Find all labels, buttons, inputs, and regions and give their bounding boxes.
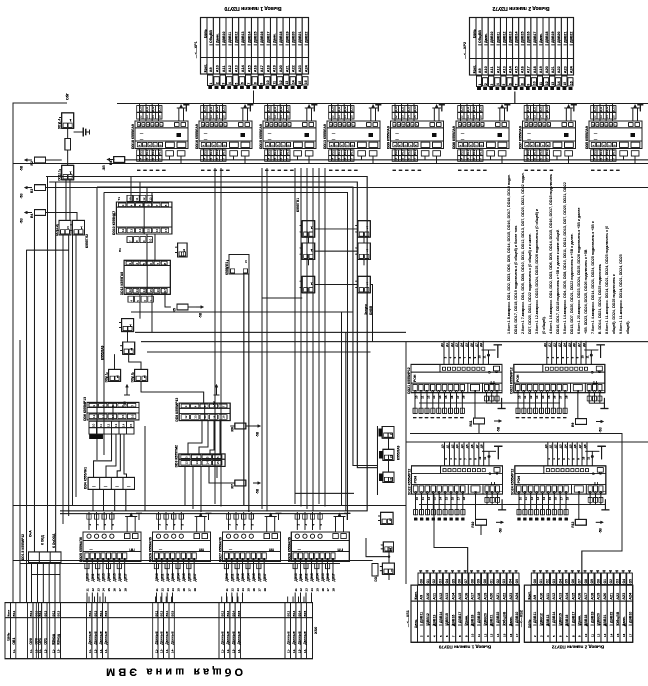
wire trunk vertical 13 (341, 312, 343, 505)
svg-text:-5В: -5В (598, 527, 602, 533)
svg-text:17: 17 (118, 588, 122, 592)
svg-text:16: 16 (554, 497, 558, 501)
wire left mid vert 1 (96, 187, 98, 460)
svg-text:А11: А11 (546, 593, 550, 600)
svg-text:14: 14 (557, 81, 561, 85)
svg-text:14: 14 (291, 80, 295, 84)
svg-text:14: 14 (605, 115, 609, 119)
svg-text:12: 12 (267, 115, 271, 119)
svg-text:11: 11 (477, 634, 481, 638)
svg-text:13-: 13- (231, 649, 235, 653)
svg-text:ДВ14: ДВ14 (107, 573, 111, 581)
svg-text:В10: В10 (267, 150, 271, 156)
wire bigIC row link (410, 434, 622, 573)
svg-text:10: 10 (581, 355, 585, 359)
svg-text:14: 14 (279, 115, 283, 119)
resistor R6 (235, 423, 246, 429)
svg-text:О6: О6 (458, 579, 462, 583)
svg-text:14: 14 (203, 157, 207, 161)
wire nest 4 (60, 192, 348, 513)
svg-text:R9: R9 (571, 423, 575, 427)
svg-text:DD1.1: DD1.1 (104, 373, 108, 382)
svg-text:О1: О1 (539, 579, 543, 583)
svg-text:ДВ13: ДВ13 (310, 573, 314, 581)
svg-text:DD8 К555ЛА9: DD8 К555ЛА9 (452, 126, 456, 149)
IC DD22 (412, 466, 503, 494)
wire bigIC row link 2 (434, 494, 468, 573)
svg-text:А13: А13 (235, 65, 239, 72)
svg-text:Д12: Д12 (472, 106, 476, 112)
IC DD26 (153, 532, 211, 562)
svg-text:15: 15 (216, 461, 220, 465)
svg-text:-5В: -5В (499, 527, 503, 533)
svg-text:Данные: Данные (226, 631, 230, 644)
svg-text:ОбщВВ: ОбщВВ (616, 611, 620, 624)
svg-text:13: 13 (400, 115, 404, 119)
wire mid horiz 312 (131, 311, 353, 313)
power -5V R9 (596, 421, 602, 423)
svg-text:18: 18 (332, 588, 336, 592)
wire R11 down (478, 424, 480, 434)
svg-text:13: 13 (145, 115, 149, 119)
wire trunk vertical (312, 168, 314, 512)
svg-text:О1: О1 (426, 579, 430, 583)
IC DD27 (223, 532, 281, 562)
wire gate input bus (376, 426, 378, 495)
svg-text:16: 16 (321, 588, 325, 592)
svg-text:ДВВ11: ДВВ11 (420, 612, 424, 623)
wire trunk vertical 11 (243, 274, 245, 505)
svg-text:18: 18 (123, 588, 127, 592)
svg-text:Конт: Конт (7, 609, 11, 616)
svg-text:Данные: Данные (93, 631, 97, 644)
svg-text:16: 16 (553, 395, 557, 399)
svg-text:ДВВ22: ДВВ22 (610, 612, 614, 623)
svg-text:17: 17 (479, 157, 483, 161)
svg-text:А21: А21 (610, 593, 614, 600)
connector XS2 (524, 585, 632, 642)
svg-text:13: 13 (535, 395, 539, 399)
svg-text:13: 13 (135, 289, 139, 293)
IC DD5 (589, 121, 642, 149)
svg-text:DD24 К555ИР12: DD24 К555ИР12 (511, 469, 515, 496)
svg-text:14: 14 (593, 157, 597, 161)
svg-text:13-: 13- (99, 649, 103, 653)
svg-text:-5В: -5В (599, 427, 603, 433)
svg-text:13: 13 (96, 588, 100, 592)
svg-text:Д12: Д12 (151, 106, 155, 112)
svg-text:Данные: Данные (160, 631, 164, 644)
svg-text:-5В: -5В (256, 488, 260, 494)
svg-text:3: 3 (490, 84, 494, 86)
svg-text:ДВВ13: ДВВ13 (509, 32, 513, 43)
svg-text:А14: А14 (241, 64, 245, 72)
svg-text:Данн.: Данн. (273, 33, 277, 43)
svg-text:12: 12 (184, 415, 188, 419)
svg-text:ДВВ12: ДВВ12 (502, 32, 506, 43)
wire XP2 down (514, 92, 516, 104)
svg-text:17: 17 (612, 157, 616, 161)
svg-text:Д7: Д7 (475, 444, 479, 448)
svg-text:R8: R8 (109, 161, 113, 165)
svg-text:DD27 К559АП6: DD27 К559АП6 (219, 537, 223, 562)
svg-text:ДВВ11: ДВВ11 (496, 32, 500, 43)
svg-text:12: 12 (160, 588, 164, 592)
svg-text:КВход: КВход (57, 633, 61, 644)
svg-text:КВход: КВход (51, 633, 55, 644)
svg-text:Вывод 2 панели ПЗУ72: Вывод 2 панели ПЗУ72 (492, 5, 549, 11)
svg-text:DD1: DD1 (374, 575, 378, 582)
svg-text:ДВ12: ДВ12 (96, 573, 100, 581)
svg-text:10: 10 (92, 423, 96, 427)
svg-text:А19: А19 (483, 593, 487, 600)
svg-text:12-: 12- (160, 649, 164, 653)
svg-text:10: 10 (471, 633, 475, 637)
svg-text:А20: А20 (490, 593, 494, 600)
svg-text:17: 17 (456, 497, 460, 501)
svg-text:12: 12 (230, 588, 234, 592)
svg-text:В11: В11 (273, 150, 277, 155)
svg-text:Д7: Д7 (577, 343, 581, 347)
svg-text:7: 7 (514, 84, 518, 86)
svg-text:ДВВ16: ДВВ16 (452, 615, 456, 626)
wire trunk vertical (324, 168, 326, 507)
svg-text:А16: А16 (521, 66, 525, 73)
svg-text:13: 13 (166, 588, 170, 592)
svg-text:Д11: Д11 (145, 106, 149, 111)
svg-text:Данные: Данные (297, 631, 301, 644)
svg-text:Д10: Д10 (139, 106, 143, 112)
svg-text:12: 12 (279, 80, 283, 84)
wire gate link (388, 552, 390, 563)
svg-text:10: 10 (415, 497, 419, 501)
connector XP2 (470, 18, 574, 76)
svg-text:15: 15 (177, 588, 181, 592)
svg-text:ДВ12: ДВ12 (166, 573, 170, 581)
svg-text:17: 17 (164, 228, 168, 232)
IC DD8 register (179, 403, 230, 421)
svg-text:2: 2 (215, 82, 219, 84)
svg-text:ДВВ17: ДВВ17 (266, 32, 270, 43)
svg-text:Данные: Данные (303, 631, 307, 644)
svg-text:В12: В12 (151, 150, 155, 156)
svg-text:12: 12 (426, 395, 430, 399)
svg-text:В12: В12 (539, 150, 543, 156)
capacitor C1 (74, 131, 84, 133)
svg-text:О1: О1 (603, 579, 607, 583)
svg-text:ДВ13: ДВ13 (102, 573, 106, 581)
wire XP1 down (253, 91, 255, 104)
svg-text:15: 15 (599, 157, 603, 161)
svg-text:ОУ1: ОУ1 (43, 638, 47, 645)
IC DD18 (135, 121, 188, 149)
svg-text:15: 15 (107, 588, 111, 592)
svg-text:15: 15 (209, 157, 213, 161)
svg-text:17: 17 (515, 633, 519, 637)
svg-text:ДВВ19: ДВВ19 (477, 612, 481, 623)
svg-text:14: 14 (526, 157, 530, 161)
svg-text:15: 15 (466, 157, 470, 161)
svg-text:R12: R12 (571, 521, 575, 527)
svg-text:ДВ12: ДВ12 (236, 573, 240, 581)
svg-text:Д10: Д10 (526, 106, 530, 112)
svg-text:А22: А22 (616, 593, 620, 600)
svg-text:14: 14 (439, 497, 443, 501)
svg-text:В13: В13 (286, 150, 290, 156)
svg-text:DD6 К555ИР13: DD6 К555ИР13 (83, 397, 87, 421)
svg-text:А14: А14 (452, 592, 456, 600)
IC DD16 (199, 121, 252, 149)
IC DD21 (411, 364, 502, 392)
svg-text:К555ТВ1: К555ТВ1 (296, 198, 300, 212)
svg-text:В10: В10 (394, 150, 398, 156)
svg-text:13: 13 (148, 197, 152, 201)
svg-text:13: 13 (305, 588, 309, 592)
svg-text:Данные: Данные (88, 631, 92, 644)
svg-text:17: 17 (158, 157, 162, 161)
svg-text:18: 18 (193, 588, 197, 592)
svg-text:А18: А18 (533, 66, 537, 73)
svg-text:Запуск: Запуск (364, 304, 368, 315)
svg-text:В12: В12 (472, 150, 476, 156)
svg-text:ПП: ПП (337, 547, 343, 551)
wire mid horiz 352 (147, 351, 370, 353)
svg-text:16: 16 (509, 633, 513, 637)
gate DD17.3 (358, 276, 371, 293)
svg-text:5: 5 (502, 84, 506, 86)
svg-text:В14: В14 (297, 611, 301, 617)
gate DD1 bottom (382, 563, 394, 574)
svg-text:1: 1 (209, 83, 213, 85)
svg-text:9: 9 (527, 84, 531, 86)
svg-text:ХS0: ХS0 (314, 627, 318, 634)
svg-text:Д8: Д8 (479, 343, 483, 347)
wire DD6-DD4 fan A (94, 434, 112, 477)
svg-text:-5В: -5В (20, 193, 24, 199)
svg-text:DD13 К555ЛА9: DD13 К555ЛА9 (323, 124, 327, 149)
wire mid horiz 298 (262, 297, 302, 299)
wire DD6-DD4 fan C (117, 434, 120, 477)
svg-text:А19: А19 (273, 65, 277, 72)
svg-text:14: 14 (394, 157, 398, 161)
svg-text:DD13, DD7, DD20, DD21, DD22 по: DD13, DD7, DD20, DD21, DD22 подключень к… (570, 233, 574, 334)
svg-text:Д11: Д11 (599, 106, 603, 111)
svg-text:14: 14 (138, 228, 142, 232)
svg-text:ДВ14: ДВ14 (315, 573, 319, 581)
svg-text:Вывод 1 панели ПЗУ70: Вывод 1 панели ПЗУ70 (438, 645, 491, 650)
svg-text:О1: О1 (490, 579, 494, 583)
svg-text:12: 12 (107, 423, 111, 427)
svg-text:15: 15 (212, 415, 216, 419)
svg-text:ПП: ПП (129, 547, 135, 551)
svg-text:12: 12 (483, 633, 487, 637)
svg-text:14: 14 (215, 115, 219, 119)
resistor R1 vertical (65, 139, 71, 151)
svg-text:А16: А16 (254, 65, 258, 72)
svg-text:ДВ14: ДВ14 (177, 573, 181, 581)
svg-text:ДВВ15: ДВВ15 (559, 613, 563, 624)
IC DD10 top boxes (127, 195, 133, 201)
svg-text:5: 5 (234, 83, 238, 85)
svg-text:В13: В13 (43, 611, 47, 617)
gate DD11.2 (59, 220, 71, 235)
wire DD6-DD4 fan B (106, 434, 116, 477)
svg-text:11: 11 (483, 456, 487, 459)
svg-text:11-: 11- (29, 649, 33, 653)
svg-text:Д5: Д5 (567, 343, 571, 347)
svg-text:В12: В12 (287, 611, 291, 617)
svg-text:ДВ10: ДВ10 (155, 573, 159, 581)
svg-text:12: 12 (597, 633, 601, 637)
svg-text:16: 16 (472, 157, 476, 161)
svg-text:Д0: Д0 (441, 444, 445, 448)
svg-text:О2: О2 (432, 579, 436, 583)
svg-text:13: 13 (432, 395, 436, 399)
svg-text:А17: А17 (471, 593, 475, 600)
svg-text:Д13: Д13 (286, 106, 290, 112)
wire gate link v (363, 260, 365, 266)
svg-text:16: 16 (151, 157, 155, 161)
svg-text:12-: 12- (57, 649, 61, 653)
svg-text:1.Конт.1 8-микросх. DD1, DD2,: 1.Конт.1 8-микросх. DD1, DD2, DD3, DD6, … (507, 174, 511, 334)
svg-text:Д10: Д10 (460, 106, 464, 112)
svg-text:-5В: -5В (256, 431, 260, 437)
svg-text:6: 6 (508, 83, 512, 85)
svg-text:А12: А12 (439, 593, 443, 600)
svg-text:15: 15 (145, 157, 149, 161)
svg-text:-5В: -5В (199, 312, 203, 318)
svg-text:общей). DD24, DD25 подключень: общей). DD24, DD25 подключень к (612, 274, 616, 334)
svg-text:Данные: Данные (287, 631, 291, 644)
svg-text:Данные: Данные (171, 631, 175, 644)
svg-text:4: 4 (228, 82, 232, 84)
resistor R8 (114, 157, 125, 163)
power -5V R12 (596, 521, 602, 523)
svg-text:Д1: Д1 (548, 343, 552, 347)
svg-text:А22: А22 (557, 66, 561, 73)
svg-text:14-: 14- (104, 649, 108, 653)
svg-text:ДВ11: ДВ11 (160, 573, 164, 581)
svg-text:А23: А23 (563, 66, 567, 73)
svg-text:Д10: Д10 (267, 106, 271, 112)
svg-text:ОУ1: ОУ1 (38, 638, 42, 645)
svg-text:А20: А20 (545, 66, 549, 73)
svg-text:18: 18 (565, 395, 569, 399)
svg-text:ДВ11: ДВ11 (299, 573, 303, 581)
svg-text:9.Конт.1 11-микросх. DD14, DD2: 9.Конт.1 11-микросх. DD14, DD21, DD24, D… (619, 254, 623, 334)
svg-text:А13: А13 (559, 593, 563, 600)
svg-text:ДВ13: ДВ13 (171, 573, 175, 581)
IC DD10 (116, 202, 171, 234)
svg-text:6: 6 (241, 82, 245, 84)
svg-text:13: 13 (194, 415, 198, 419)
resistor R7 (235, 480, 246, 486)
svg-text:А19: А19 (597, 593, 601, 600)
wire nest 1 (46, 177, 367, 511)
IC DD10 bottom boxes (127, 237, 133, 243)
svg-text:В10: В10 (139, 150, 143, 156)
svg-text:ДВВ14: ДВВ14 (439, 612, 443, 623)
svg-text:8: 8 (521, 83, 525, 85)
svg-text:11: 11 (272, 81, 276, 85)
svg-text:18: 18 (462, 497, 466, 501)
svg-text:О3: О3 (552, 579, 556, 583)
svg-text:15: 15 (129, 423, 133, 427)
IC DD12 bottom boxes (128, 296, 134, 302)
svg-text:Д3: Д3 (558, 343, 562, 347)
svg-text:Д11: Д11 (209, 106, 213, 111)
svg-text:ДВВ20: ДВВ20 (483, 613, 487, 624)
svg-text:10: 10 (584, 633, 588, 637)
svg-text:DD21 К555ИР12: DD21 К555ИР12 (407, 367, 411, 394)
svg-text:ДВВ12: ДВВ12 (235, 32, 239, 43)
svg-text:14: 14 (438, 395, 442, 399)
svg-text:11-: 11- (12, 649, 16, 653)
svg-text:15: 15 (616, 633, 620, 637)
svg-text:РОН: РОН (413, 374, 417, 382)
svg-text:ДВ10: ДВ10 (225, 573, 229, 581)
svg-text:8.Конт.1 11-микросх. DD14, DD2: 8.Конт.1 11-микросх. DD14, DD21, DD24, D… (605, 226, 609, 334)
svg-text:В12: В12 (279, 150, 283, 156)
svg-text:П1: П1 (118, 248, 122, 252)
svg-text:В13: В13 (350, 150, 354, 156)
svg-text:DD12 К555ГА8: DD12 К555ГА8 (120, 272, 124, 295)
svg-text:О3: О3 (502, 579, 506, 583)
resistor R11 (474, 418, 485, 424)
svg-text:Д5: Д5 (465, 444, 469, 448)
svg-text:11: 11 (99, 424, 103, 427)
svg-text:С: С (488, 370, 491, 374)
power -5V R5 (196, 306, 202, 308)
power -5V R6 (253, 425, 259, 427)
svg-text:13: 13 (114, 423, 118, 427)
svg-text:С: С (591, 370, 594, 374)
svg-text:Конт.: Конт. (472, 65, 476, 73)
svg-text:А18: А18 (266, 65, 270, 72)
svg-text:В12: В12 (51, 611, 55, 617)
svg-text:ДВВ20: ДВВ20 (557, 32, 561, 43)
wire nest drop 4 (151, 192, 153, 202)
svg-text:В15: В15 (237, 611, 241, 617)
svg-text:Д2: Д2 (554, 444, 558, 448)
svg-text:ДВВ18: ДВВ18 (584, 615, 588, 626)
svg-text:DD4 К555ЛН1: DD4 К555ЛН1 (84, 467, 88, 489)
svg-text:А20: А20 (603, 593, 607, 600)
svg-text:12-: 12- (292, 649, 296, 653)
svg-text:Д12: Д12 (343, 106, 347, 112)
svg-text:15: 15 (298, 81, 302, 85)
svg-text:В10: В10 (203, 150, 207, 156)
svg-text:В14: В14 (99, 611, 103, 617)
IC DD23 (514, 364, 605, 392)
svg-text:DD11.4: DD11.4 (58, 118, 62, 129)
svg-text:А12: А12 (552, 593, 556, 600)
power -5V 2 (27, 187, 33, 189)
svg-text:14: 14 (496, 633, 500, 637)
svg-text:11: 11 (585, 355, 589, 358)
svg-text:11-: 11- (221, 649, 225, 653)
svg-text:ДВВ17: ДВВ17 (533, 32, 537, 43)
svg-text:R2: R2 (30, 161, 34, 165)
svg-text:В13: В13 (160, 611, 164, 617)
svg-text:А11: А11 (432, 593, 436, 600)
svg-text:В12: В12 (29, 611, 33, 617)
svg-text:А24: А24 (629, 592, 633, 600)
svg-text:DD9 К555ЛА9: DD9 К555ЛА9 (387, 126, 391, 149)
svg-text:В10: В10 (593, 150, 597, 156)
svg-text:В12: В12 (605, 150, 609, 156)
svg-text:В. DD14, DD21, DD24, DD25 подк: В. DD14, DD21, DD24, DD25 подключень (598, 264, 602, 334)
